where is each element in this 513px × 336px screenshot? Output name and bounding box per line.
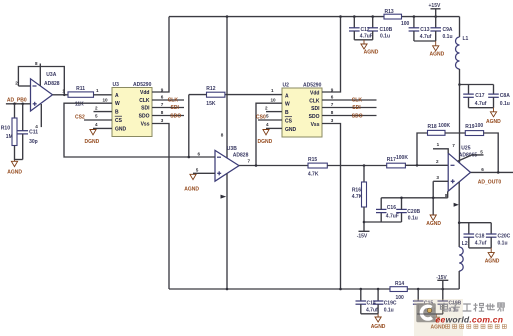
svg-text:B: B [285,110,289,116]
svg-text:100: 100 [475,123,484,129]
svg-text:4: 4 [95,122,98,127]
svg-text:CLK: CLK [309,99,320,105]
svg-text:AD5290: AD5290 [303,83,322,89]
svg-text:R16: R16 [352,187,361,193]
capacitor C11 [15,104,39,160]
wire R16 to C16/C20B bottom [364,221,402,223]
ground AGND (U3B pin5) [184,174,199,192]
svg-text:R18: R18 [428,124,437,130]
svg-text:SDO: SDO [352,113,363,119]
resistor R12 [189,86,225,107]
svg-text:CLK: CLK [139,98,150,104]
svg-text:C11: C11 [29,129,38,135]
wire R19 to output feedback [484,133,499,172]
svg-text:AGND: AGND [364,50,379,56]
wire C18-C20C bottom [469,247,491,249]
svg-text:6: 6 [198,151,201,156]
svg-text:C16: C16 [387,205,396,211]
svg-text:1: 1 [437,142,440,147]
resistor R14 [390,281,407,301]
svg-text:5: 5 [95,113,98,118]
capacitor C19B [438,289,462,314]
svg-text:1M: 1M [6,134,13,140]
svg-text:5: 5 [266,113,269,118]
wire U2 pin W to U3B output node [256,97,282,165]
svg-text:8: 8 [161,110,164,115]
svg-text:4: 4 [35,124,38,129]
svg-text:100: 100 [401,21,410,27]
svg-text:CS: CS [115,118,123,124]
resistor R11 [68,86,94,107]
capacitor C14 [356,289,379,314]
svg-text:AGND: AGND [7,169,22,175]
svg-text:7: 7 [161,102,164,107]
svg-text:-15V: -15V [357,234,368,240]
capacitor C20B [396,198,420,222]
svg-text:AGND: AGND [486,119,501,125]
svg-text:U3A: U3A [46,72,56,78]
svg-text:4: 4 [266,122,269,127]
svg-text:DGND: DGND [85,139,100,145]
svg-text:30p: 30p [29,139,38,145]
svg-text:7: 7 [452,143,455,148]
svg-text:SDO: SDO [139,114,150,120]
node C18/C20C tap [458,221,461,224]
wire C14-C19C bottom [361,313,378,315]
svg-text:AGND: AGND [371,324,386,330]
svg-text:U25: U25 [461,146,470,152]
svg-text:R14: R14 [395,281,404,287]
svg-text:100K: 100K [396,155,408,161]
ground AGND (C12/C10B) [361,40,379,56]
svg-text:CS0: CS0 [256,114,266,120]
svg-text:AD828: AD828 [44,81,60,87]
node top rail junctions [226,15,229,18]
inductor L2 [459,241,468,289]
svg-text:R12: R12 [206,86,215,92]
svg-text:7: 7 [331,102,334,107]
svg-text:C18: C18 [475,233,484,239]
ground AGND (R10/C11) [7,160,22,175]
wire U3B output pin 7 [239,158,308,165]
resistor R10 [1,104,17,160]
svg-text:AD828: AD828 [233,152,249,158]
svg-text:B: B [115,110,119,116]
node feedback/output junction [62,88,65,96]
svg-text:DGND: DGND [258,139,273,145]
svg-text:W: W [115,101,120,107]
resistor R16 [352,166,367,232]
svg-text:A: A [285,93,289,99]
svg-text:6: 6 [161,95,164,100]
svg-text:0.1u: 0.1u [500,101,510,107]
capacitor C12 [349,17,373,40]
svg-text:2: 2 [265,106,268,111]
svg-text:1: 1 [62,88,65,93]
svg-text:AD_OUT0: AD_OUT0 [478,179,502,185]
wire U2 pin GND stub [266,122,282,129]
wire U2 pin B stub [265,106,282,112]
svg-text:4.7uf: 4.7uf [475,101,487,107]
svg-text:L1: L1 [463,36,469,42]
svg-text:C10B: C10B [380,27,393,33]
wire bottom -15V rail [169,288,390,290]
svg-text:4.7uF: 4.7uF [360,34,373,40]
wire U3B pin 6 input [64,151,215,158]
capacitor C16 [376,198,399,222]
resistor R13 [384,9,410,27]
svg-text:100K: 100K [438,123,450,129]
svg-text:AD_PB0: AD_PB0 [7,98,27,104]
pin 8 stub U3A [35,61,40,86]
wire C12-C10B bottom [354,39,372,41]
capacitor C9A [430,17,452,41]
ground AGND (C14/C19C) [371,314,386,330]
wire U3B pin 4 to bottom rail [221,174,228,290]
svg-text:8: 8 [221,133,224,138]
wire U25 pin 3 input [433,175,448,181]
wire U3 SDI stub [152,102,184,111]
svg-text:4.7uf: 4.7uf [420,34,432,40]
svg-text:3: 3 [331,118,334,123]
svg-text:U2: U2 [283,83,290,89]
svg-text:Vdd: Vdd [310,91,319,97]
svg-text:CS2: CS2 [75,115,85,121]
svg-text:10: 10 [271,97,277,102]
wire U2 pin A from R12 [225,88,282,95]
glyph dian [441,303,449,311]
wire U3 pin B stub [94,106,113,112]
glyph shi [486,303,495,311]
small slogan glyph row [446,325,450,329]
svg-text:4.7K: 4.7K [352,194,363,200]
svg-text:8: 8 [35,61,38,66]
svg-text:4.7K: 4.7K [308,171,319,177]
svg-text:Vdd: Vdd [140,90,149,96]
power -15V (bottom) [436,275,448,289]
svg-text:AGND: AGND [430,51,445,57]
svg-text:AGND: AGND [426,221,441,227]
wire U25 pin 5 stub [458,150,484,162]
wire U3 pin W to wiper node [64,97,112,156]
capacitor C10B [367,17,392,40]
wire U25 pin 8 stub [445,191,448,198]
wire U25 pin3/pin8 AGND node [432,181,434,215]
wire C16/C20B top to U25 +input node [381,197,448,199]
svg-text:AD5290: AD5290 [133,82,152,88]
wire U2 Vdd to +15V rail [322,17,341,93]
svg-text:2: 2 [15,81,18,86]
svg-text:1: 1 [271,88,274,93]
svg-text:-15V: -15V [436,275,447,281]
svg-text:100: 100 [396,295,405,301]
wire R15 to R17 [327,165,386,167]
node U2 wiper tap [255,164,258,167]
capacitor C13 [409,17,432,41]
capacitor C19C [373,289,397,314]
wire U3 CLK stub [152,95,184,104]
wire U2 pin CS stub [256,113,282,120]
wire U3A inverting input pin 2 [15,81,30,86]
wire U25 output pin 6 [471,167,513,174]
node R16/cap tap [363,221,366,224]
svg-text:CLK: CLK [168,98,179,104]
resistor R15 [308,157,327,177]
wire U25 pin 4 / -15V column [454,182,460,247]
svg-text:CS: CS [285,119,293,125]
svg-text:R15: R15 [308,157,317,163]
wire U3 SDO stub [152,110,184,119]
node L1/cap tap [458,83,461,86]
wire U3B pin 5 input to AGND [193,168,215,174]
wire top rail right of R13 [402,16,460,18]
op-amp U3A [31,72,60,111]
svg-text:2: 2 [95,106,98,111]
wire U3 pin GND stub [93,122,112,129]
resistor R18 [428,123,451,135]
svg-text:SDI: SDI [141,106,150,112]
svg-text:8: 8 [445,193,448,198]
svg-text:C13: C13 [420,27,429,33]
svg-text:U3: U3 [113,82,120,88]
capacitor C18 [464,223,487,248]
svg-text:SDI: SDI [171,105,180,111]
capacitor C15 [413,289,436,314]
op-amp U3B [215,146,249,181]
capacitor C20C [486,223,511,248]
svg-text:7: 7 [248,158,251,163]
svg-text:3: 3 [436,175,439,180]
svg-text:U3B: U3B [227,146,237,152]
svg-text:C17: C17 [475,93,484,99]
digital pot U3 AD5290 [112,82,152,137]
svg-text:0.1u: 0.1u [384,308,394,314]
op-amp U25 [448,146,477,191]
node R16 tap [363,164,366,167]
wire U2 CLK stub [322,95,377,104]
svg-text:2: 2 [436,159,439,164]
wire U3 Vss to bottom rail [152,118,169,289]
svg-text:3: 3 [161,118,164,123]
glyph zi [451,304,460,312]
wire C17-C8A bottom [469,107,494,109]
glyph gong [463,304,472,311]
svg-text:AGND: AGND [485,259,500,265]
svg-text:C9A: C9A [443,27,453,33]
svg-text:C20B: C20B [407,209,420,215]
svg-text:8: 8 [331,110,334,115]
capacitor C17 [463,85,487,108]
svg-text:C19C: C19C [384,300,397,306]
wire U25 pin 1 stub [433,142,448,153]
svg-text:6: 6 [331,95,334,100]
ground AGND (C13/C9A) [430,41,445,57]
glyph jie [498,303,505,312]
wire U3A output [53,94,69,96]
wire U3 pin CS stub [75,113,112,120]
svg-text:R17: R17 [387,157,396,163]
svg-text:R11: R11 [76,86,85,92]
svg-text:11K: 11K [75,101,84,107]
node bottom rail junctions [226,288,229,291]
ground DGND (U3) [85,130,100,146]
wire R17 to U25 pin 2 [405,159,448,166]
svg-text:AD8065: AD8065 [459,153,478,159]
resistor R19 [465,123,483,136]
capacitor C8A [488,85,510,108]
svg-text:0.1u: 0.1u [408,215,418,221]
svg-text:AGND: AGND [184,186,199,192]
svg-text:9: 9 [331,87,334,92]
svg-text:4.7uf: 4.7uf [366,308,378,314]
svg-text:9: 9 [161,87,164,92]
svg-text:W: W [285,102,290,108]
svg-text:0.1u: 0.1u [498,241,508,247]
wire U2 SDI stub [322,102,377,111]
svg-text:5: 5 [196,168,199,173]
svg-text:SDI: SDI [352,105,361,111]
digital pot U2 AD5290 [282,83,322,138]
wire R18 left vertical [417,133,428,165]
ground AGND (C15/C19B) [431,314,446,331]
wire R11 to U3 pin A [94,88,113,95]
node input junctions [13,103,16,106]
svg-text:C8A: C8A [500,93,510,99]
svg-text:0.1u: 0.1u [443,34,453,40]
svg-text:15K: 15K [206,101,216,107]
svg-text:R13: R13 [385,9,394,15]
ground DGND (U2) [258,130,273,146]
svg-text:Vss: Vss [311,122,320,128]
ground AGND (U25 +input) [426,215,441,227]
svg-text:5: 5 [480,150,483,155]
ground AGND (C18/C20C) [485,248,500,265]
svg-text:CLK: CLK [352,98,363,104]
svg-text:SDO: SDO [170,113,181,119]
pin 4 stub U3A [35,104,41,129]
wire U2 Vss to bottom rail [322,118,341,289]
wire C15-C19B bottom [418,313,443,315]
inductor L1 [456,17,469,164]
svg-text:L2: L2 [462,241,468,247]
svg-text:Vss: Vss [141,122,150,128]
svg-text:1: 1 [96,88,99,93]
svg-text:10: 10 [103,97,109,102]
svg-text:C20C: C20C [498,233,511,239]
svg-text:A: A [115,93,119,99]
wire AD_PB0 input [6,98,31,104]
svg-text:6: 6 [481,167,484,172]
svg-text:4.7uf: 4.7uf [475,241,487,247]
svg-text:+15V: +15V [429,3,441,9]
wire U3B pin 8 supply from rail [221,17,227,158]
svg-text:SDI: SDI [311,106,320,112]
svg-text:0.1u: 0.1u [380,34,390,40]
watermark eeworld [414,299,506,336]
wire to C18/C20C [459,222,491,224]
svg-text:R19: R19 [465,124,474,130]
resistor R17 [387,155,409,168]
svg-text:4.7uF: 4.7uF [386,213,399,219]
wire U3 Vdd to +15V rail [152,17,169,93]
svg-text:eeworld.com.cn: eeworld.com.cn [436,314,504,324]
svg-text:SDO: SDO [309,114,320,120]
wire U2 SDO stub [322,110,377,119]
wire R18 to R19 [445,132,465,134]
wire C13-C9A bottom [414,40,436,42]
svg-text:R10: R10 [1,125,10,131]
wire to C17/C8A [460,84,494,86]
power +15V [429,3,441,17]
glyph cheng [473,303,484,312]
power -15V (R16) [357,231,370,239]
node R18 tap [416,164,419,167]
svg-text:GND: GND [115,126,127,132]
wire U3A feedback top [18,67,64,95]
ground AGND (C17/C8A) [486,108,501,125]
svg-text:GND: GND [285,127,297,133]
wire R12 left to U3B pin 6 node [188,95,190,157]
wire top +15V rail [169,16,384,18]
